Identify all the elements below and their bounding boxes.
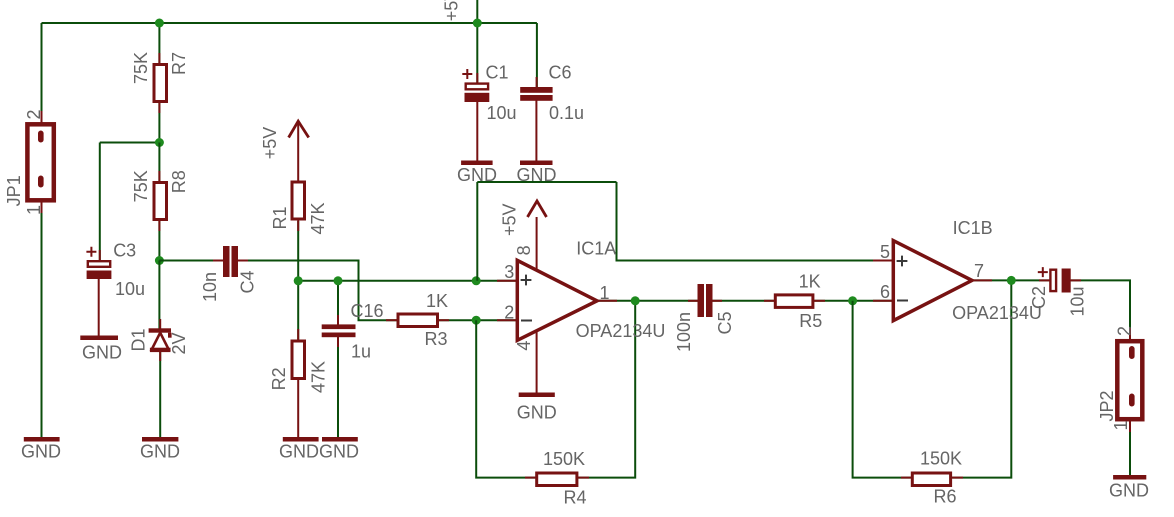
svg-text:150K: 150K — [543, 449, 585, 469]
wire JP2 pin1 to GND — [1129, 421, 1131, 476]
node pin3 junction — [472, 276, 481, 285]
pin stub C4 left — [213, 260, 223, 262]
ground symbol JP1 — [24, 437, 60, 442]
svg-text:GND: GND — [21, 442, 61, 462]
pin stub R7 top — [158, 53, 160, 65]
svg-text:C1: C1 — [485, 63, 508, 83]
capacitor C5 plates — [698, 284, 705, 317]
ground symbol C6 — [520, 161, 553, 166]
ground symbol D1 — [142, 437, 178, 442]
wire rail down to R7 — [158, 23, 160, 64]
node pin2-R3-R4 junction — [472, 316, 481, 325]
wire C16 branch vertical — [337, 281, 339, 325]
svg-text:5: 5 — [880, 242, 890, 262]
node R7-R8-C3 junction — [155, 138, 164, 147]
wire bias link down and right to IC1B pin5 — [617, 182, 894, 261]
svg-text:1K: 1K — [799, 272, 821, 292]
node C16 junction — [334, 276, 343, 285]
capacitor C6 plates — [520, 87, 552, 93]
ground symbol C3 — [80, 336, 118, 341]
pin stub C6 top — [536, 77, 538, 88]
wire feedback R6 right side up to output — [952, 280, 1011, 477]
svg-text:OPA2134U: OPA2134U — [576, 321, 666, 341]
+5V arrow above R1 — [289, 121, 309, 137]
svg-text:GND: GND — [279, 442, 319, 462]
capacitor C2 plus sign — [1038, 267, 1048, 277]
svg-text:GND: GND — [517, 403, 557, 423]
wire C5 right to R5 left — [712, 300, 774, 302]
pin stub R8 top — [158, 171, 160, 183]
pin stub C5 right — [712, 300, 722, 302]
wire R8 bottom to signal node — [158, 221, 160, 261]
pin stub C2 right — [1070, 279, 1081, 281]
svg-text:10u: 10u — [115, 279, 145, 299]
ground symbol IC1A pin4 — [519, 393, 555, 398]
pin stub C6 to GND — [535, 100, 537, 161]
pin stub C16 bottom — [337, 337, 339, 347]
pin stub op-amp pin6 — [873, 300, 893, 302]
svg-text:GND: GND — [457, 165, 497, 185]
+5V arrow above IC1A pin8 — [528, 201, 547, 217]
svg-text:R7: R7 — [169, 52, 189, 75]
pin stub R3 left — [386, 319, 398, 321]
pin stub C16 top — [337, 315, 339, 325]
pin stub R1 bottom — [297, 219, 299, 231]
node rail-+5V junction — [473, 19, 482, 28]
resistor R8 — [154, 183, 167, 220]
pin stub R4 right — [577, 477, 589, 479]
pin stub +5V arrow to R1 — [297, 122, 299, 181]
wire R7 bottom to R8 junction — [158, 102, 160, 143]
op-amp IC1B minus mark — [897, 300, 908, 302]
svg-text:R5: R5 — [799, 311, 822, 331]
svg-text:1: 1 — [24, 205, 44, 215]
node R1-R2 bias junction — [294, 276, 303, 285]
wire C3 branch vertical — [99, 143, 101, 262]
pin stub C4 right — [238, 260, 248, 262]
pin stub JP2 pin2 — [1129, 328, 1131, 341]
wire feedback R4 right side up to output — [578, 301, 635, 478]
wire signal node to C4 left — [159, 260, 222, 262]
svg-text:1u: 1u — [351, 342, 371, 362]
wire rail down to C6 — [536, 23, 538, 88]
resistor R5 — [775, 295, 813, 308]
pin stub JP1 pin1 — [41, 200, 43, 213]
node IC1A output junction — [631, 296, 640, 305]
pin stub R2 to GND — [297, 380, 299, 437]
op-amp IC1B triangle — [893, 241, 972, 321]
svg-text:2V: 2V — [169, 332, 189, 354]
wire feedback R6 loop left vertical — [853, 301, 911, 478]
svg-text:JP1: JP1 — [4, 175, 24, 206]
pin stub R6 right — [951, 477, 963, 479]
svg-text:C6: C6 — [548, 63, 571, 83]
resistor R1 — [292, 182, 305, 219]
wire bias link vertical up from pin3 node — [476, 182, 478, 281]
svg-text:2: 2 — [504, 303, 514, 323]
svg-text:OPA2134U: OPA2134U — [952, 303, 1042, 323]
svg-text:JP2: JP2 — [1097, 390, 1117, 421]
svg-text:0.1u: 0.1u — [549, 103, 584, 123]
capacitor C3 plus sign — [86, 247, 96, 257]
wire +5V supply drop at top center — [476, 0, 478, 23]
pin stub C5 left — [688, 300, 698, 302]
svg-text:+5V: +5V — [260, 127, 280, 160]
wire C16 bottom to GND — [337, 337, 339, 438]
wire R5 right to IC1B pin6 — [814, 300, 893, 302]
svg-text:GND: GND — [319, 442, 359, 462]
pin stub R8 bottom — [158, 219, 160, 231]
op-amp IC1A minus mark — [521, 320, 532, 322]
pin stub R5 left — [764, 300, 776, 302]
capacitor C2 polarized plates — [1050, 270, 1056, 291]
pin stub C3 top — [99, 250, 101, 261]
wire junction to R8 top — [158, 143, 160, 182]
svg-text:4: 4 — [514, 341, 534, 351]
svg-text:150K: 150K — [920, 449, 962, 469]
resistor R3 — [398, 314, 438, 327]
svg-text:IC1A: IC1A — [576, 239, 616, 259]
svg-text:1: 1 — [599, 283, 609, 303]
connector JP2 — [1117, 341, 1142, 419]
pin stub op-amp pin5 — [873, 260, 893, 262]
svg-text:R3: R3 — [424, 329, 447, 349]
svg-text:R2: R2 — [269, 367, 289, 390]
pin stub op-amp pin2 — [497, 319, 517, 321]
zener diode D1 — [149, 328, 172, 352]
pin stub op-amp pin8 — [536, 217, 538, 271]
svg-text:75K: 75K — [131, 170, 151, 202]
svg-text:47K: 47K — [308, 361, 328, 393]
op-amp IC1A plus mark — [521, 275, 532, 286]
resistor R2 — [292, 341, 305, 379]
wire R1 bottom to bias node — [297, 221, 299, 281]
resistor R7 — [154, 65, 167, 102]
wire JP1 pin1 to GND — [41, 203, 43, 438]
svg-text:7: 7 — [974, 261, 984, 281]
pin stub R7 bottom — [158, 101, 160, 113]
resistor R4 — [537, 473, 577, 486]
svg-text:8: 8 — [514, 245, 534, 255]
wire D1 to GND — [159, 351, 161, 437]
wire bias node down to R2 — [297, 281, 299, 340]
pin stub JP2 pin1 — [1129, 419, 1131, 432]
svg-text:GND: GND — [517, 165, 557, 185]
capacitor C16 plates — [322, 324, 356, 329]
svg-text:C16: C16 — [350, 301, 383, 321]
svg-text:2: 2 — [24, 109, 44, 119]
wire bias node horizontal to op-amp pin3 — [298, 280, 517, 282]
resistor R6 — [912, 473, 950, 486]
capacitor C4 plates — [223, 246, 230, 277]
svg-text:47K: 47K — [308, 202, 328, 234]
pin stub C1 to GND — [476, 101, 478, 161]
wire IC1B output to C2 — [972, 279, 1049, 281]
wire junction left to C3 branch — [100, 142, 160, 144]
node R8-D1-C4 junction — [155, 256, 164, 265]
svg-text:R6: R6 — [933, 487, 956, 507]
wire C2 right over and down to JP2 — [1071, 280, 1130, 341]
svg-text:C5: C5 — [715, 311, 735, 334]
pin stub D1 top — [159, 319, 161, 329]
svg-text:R4: R4 — [563, 488, 586, 508]
pin stub R3 right — [437, 319, 449, 321]
svg-text:C3: C3 — [113, 241, 136, 261]
pin stub R5 right — [813, 300, 825, 302]
svg-text:C4: C4 — [238, 270, 258, 293]
pin stub op-amp pin1 — [597, 300, 617, 302]
svg-text:100n: 100n — [674, 312, 694, 352]
pin stub R6 left — [901, 477, 913, 479]
svg-text:1K: 1K — [426, 291, 448, 311]
wire signal node down to D1 — [158, 261, 160, 331]
ground symbol R2 — [283, 437, 319, 442]
capacitor C1 plus sign — [462, 69, 472, 79]
pin stub R2 top — [297, 329, 299, 342]
op-amp U1A triangle — [517, 260, 597, 340]
node R5-pin6-R6 junction — [848, 296, 857, 305]
ground symbol JP2 — [1113, 475, 1146, 480]
wire IC1A output to C5 — [597, 300, 698, 302]
svg-text:1: 1 — [1111, 420, 1131, 430]
pin stub op-amp pin4 to GND — [536, 331, 538, 393]
wire bias link horizontal under GND labels — [477, 181, 616, 183]
pin stub C3 to GND — [98, 278, 100, 336]
pin stub op-amp pin7 — [972, 279, 992, 281]
pin stub C2 left — [1039, 279, 1050, 281]
svg-text:D1: D1 — [129, 328, 149, 351]
svg-text:IC1B: IC1B — [953, 218, 993, 238]
svg-text:GND: GND — [1109, 481, 1149, 501]
svg-text:10u: 10u — [1068, 286, 1088, 316]
wire JP1 pin2 vertical to rail — [41, 23, 43, 122]
node IC1B output junction — [1007, 276, 1016, 285]
svg-text:2: 2 — [1115, 326, 1135, 336]
svg-text:10u: 10u — [486, 103, 516, 123]
wire top +5V rail horizontal — [42, 22, 537, 24]
svg-text:GND: GND — [82, 343, 122, 363]
op-amp IC1B plus mark — [897, 256, 908, 267]
svg-text:+5V: +5V — [442, 0, 462, 21]
ground symbol C1 — [461, 161, 493, 166]
svg-text:6: 6 — [880, 282, 890, 302]
pin stub op-amp pin3 — [497, 280, 517, 282]
svg-text:3: 3 — [504, 262, 514, 282]
wire rail down to C1 — [476, 23, 478, 83]
capacitor C3 polarized plates — [88, 261, 110, 267]
pin stub C1 top — [476, 73, 478, 84]
svg-text:R8: R8 — [169, 170, 189, 193]
svg-text:+5V: +5V — [500, 203, 520, 236]
svg-text:10n: 10n — [200, 272, 220, 302]
svg-text:R1: R1 — [270, 206, 290, 229]
node rail-R7 junction — [155, 19, 164, 28]
wire R3 right to op-amp pin2 — [439, 319, 517, 321]
pin stub JP1 pin2 — [41, 111, 43, 124]
ground symbol C16 — [322, 437, 358, 442]
pin stub D1 bottom — [159, 351, 161, 361]
svg-text:75K: 75K — [131, 52, 151, 84]
capacitor C1 polarized plates — [466, 84, 488, 90]
wire C4 right over and down to R3 — [238, 261, 397, 321]
connector JP1 — [27, 124, 53, 200]
svg-text:GND: GND — [140, 442, 180, 462]
wire feedback R4 loop left vertical — [476, 320, 535, 477]
pin stub R4 left — [525, 477, 537, 479]
